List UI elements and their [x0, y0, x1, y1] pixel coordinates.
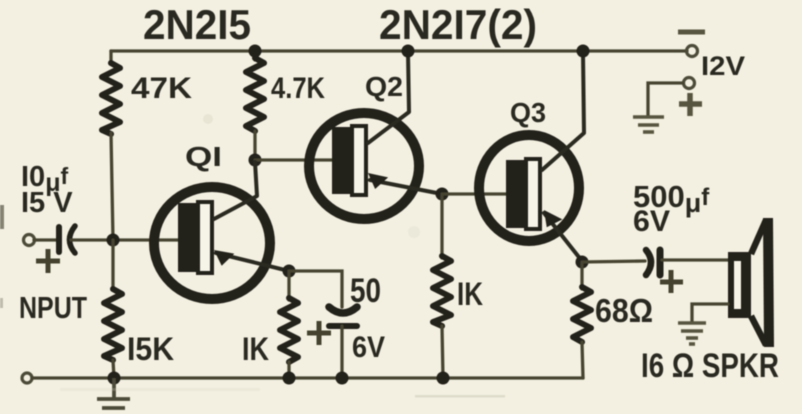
resistor R1 47K [102, 63, 120, 134]
Q3 base bar [506, 160, 526, 228]
transistor Q2 [309, 113, 419, 219]
node Q2 emitter [436, 188, 449, 201]
wire emitter node to C3 [582, 261, 645, 262]
wire 1K to rail [442, 326, 443, 378]
wire 4.7K to node [253, 131, 256, 160]
svg-text:I6 Ω SPKR: I6 Ω SPKR [641, 347, 779, 385]
wire 68 ohm to rail [582, 342, 583, 378]
ground of supply [633, 117, 664, 132]
node Q1 collector / Q2 base [249, 154, 262, 167]
svg-text:2N2I5: 2N2I5 [143, 1, 251, 48]
Q2 emitter lead [370, 180, 442, 194]
bottom rail terminal [22, 373, 32, 383]
plus sign of C2 [307, 321, 331, 345]
resistor R2 15K [104, 289, 122, 360]
node 1K bottom [283, 372, 296, 385]
wire speaker bottom terminal [692, 304, 728, 322]
node C2 bottom [336, 372, 349, 385]
wire emitter node down to 68 ohm [580, 262, 583, 289]
svg-text:Q3: Q3 [510, 97, 546, 128]
wire node to Q2 base [255, 158, 334, 161]
node rail 4.7K [249, 45, 262, 58]
svg-text:Q2: Q2 [365, 71, 403, 102]
svg-text:2N2I7(2): 2N2I7(2) [379, 1, 537, 48]
resistor R4 1K [280, 298, 298, 362]
wire emitter node to C2 [289, 271, 342, 307]
svg-text:4.7K: 4.7K [271, 72, 325, 105]
wire left column upper [109, 51, 112, 63]
speaker driver rectangle [728, 252, 751, 318]
svg-text:6V: 6V [633, 205, 670, 238]
svg-text:50: 50 [350, 272, 381, 310]
Q3 collector lead [542, 53, 584, 170]
wire emitter node down [287, 271, 290, 300]
wire C2 to rail [340, 326, 343, 378]
Q2 base bar [332, 127, 352, 194]
ground below 15K [97, 378, 130, 408]
Q3 emitter lead [544, 213, 582, 261]
speaker cone mouth bar [768, 218, 769, 347]
resistor R5 1K [433, 256, 451, 326]
Q1 base bar [178, 203, 198, 272]
wire node to Q3 base [442, 192, 508, 195]
scan artifact left edge [0, 205, 4, 229]
ground below speaker [678, 323, 706, 344]
resistor R6 68 ohm [573, 287, 591, 342]
svg-text:IK: IK [457, 276, 483, 312]
svg-text:IK: IK [242, 331, 269, 367]
node Q3 emitter [576, 256, 589, 269]
capacitor C1 curved plate [70, 226, 76, 253]
svg-text:68Ω: 68Ω [595, 292, 653, 329]
supply terminal top [687, 46, 698, 57]
supply terminal bottom [684, 78, 695, 89]
svg-text:47K: 47K [131, 72, 192, 105]
capacitor C2 50uf top curved plate [329, 307, 357, 313]
speaker cone bottom slant [751, 316, 766, 345]
svg-text:I5 V: I5 V [21, 187, 73, 219]
node Q1 emitter [283, 265, 296, 278]
scan artifact faint line below rail [415, 395, 505, 398]
Q1 emitter arrow [209, 243, 234, 268]
capacitor C2 bottom plate [329, 323, 357, 329]
scan artifact smudge [203, 114, 213, 124]
Q1 collector lead [214, 162, 257, 219]
input terminal [24, 235, 35, 246]
svg-text:NPUT: NPUT [19, 290, 87, 325]
wire top rail [111, 49, 687, 52]
plus sign of supply [679, 93, 702, 116]
node rail Q2 collector [402, 45, 415, 58]
speaker cone top slant [751, 220, 766, 254]
wire bottom rail [32, 376, 583, 379]
node rail Q3 collector [577, 45, 590, 58]
wire supply to ground [648, 83, 683, 116]
transistor Q3 [479, 135, 579, 241]
svg-text:I5K: I5K [127, 331, 174, 367]
svg-text:6V: 6V [352, 331, 385, 364]
wire C3 to speaker [662, 258, 728, 261]
wire 15K to bottom rail [113, 360, 114, 378]
svg-text:QI: QI [185, 141, 222, 172]
wire input terminal to C1 [34, 238, 56, 241]
transistor Q1 [154, 187, 270, 299]
wire C1 to Q1 base [71, 238, 178, 241]
node input junction [107, 234, 120, 247]
wire input node down [111, 240, 114, 290]
node 15K bottom [108, 372, 121, 385]
resistor R3 4.7K [246, 58, 264, 131]
plus sign of C3 [660, 270, 683, 293]
plus sign of C1 [36, 249, 60, 273]
wire 4.7K top [253, 51, 256, 60]
capacitor C3 straight plate [657, 250, 664, 275]
wire 47K to input node [111, 133, 113, 240]
minus sign [678, 30, 705, 35]
capacitor C1 10uf straight plate [56, 227, 62, 252]
Q2 collector lead [368, 53, 409, 143]
wire 1K to rail [287, 362, 290, 378]
wire node down to 1K [440, 194, 443, 258]
svg-text:I2V: I2V [701, 51, 745, 81]
Q3 emitter arrow [537, 205, 562, 230]
Q2 emitter arrow [363, 166, 388, 191]
Q1 emitter lead [216, 253, 289, 271]
capacitor C3 500uf curved plate [646, 250, 651, 275]
node 1K bottom rail [437, 372, 450, 385]
